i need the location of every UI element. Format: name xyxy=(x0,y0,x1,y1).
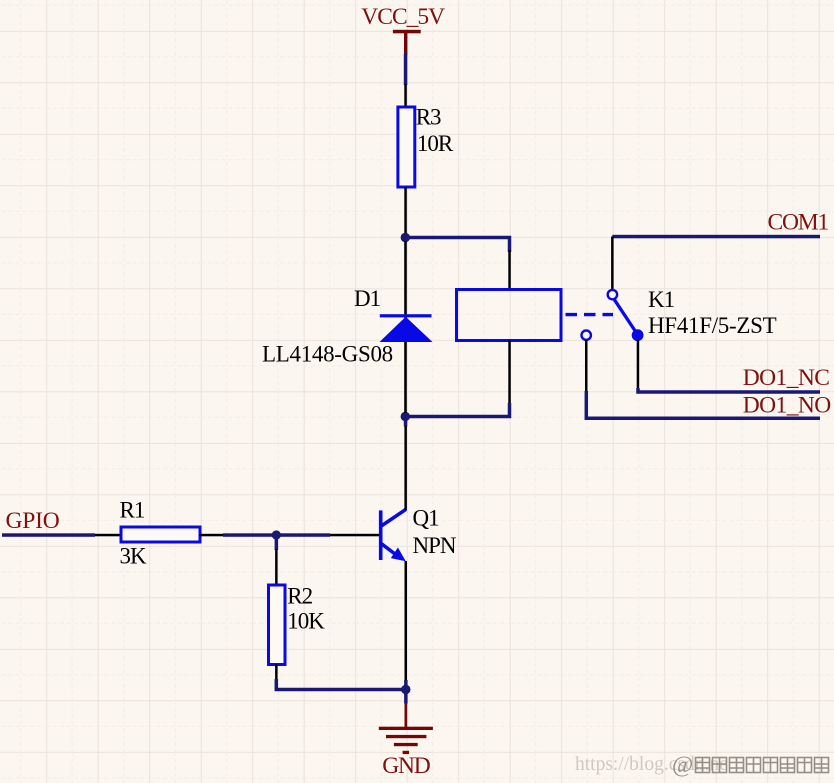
svg-text:@: @ xyxy=(672,752,693,777)
transistor Q1 emitter stroke xyxy=(381,543,400,557)
pin switch NC xyxy=(637,340,640,388)
diode D1 cathode bar xyxy=(380,314,432,317)
switch common terminal circle xyxy=(608,290,617,299)
pin Q1 base xyxy=(330,534,379,537)
wire node to R2 xyxy=(275,535,279,550)
pin R1 left xyxy=(95,534,122,537)
pin switch NO xyxy=(585,340,588,393)
switch NO terminal circle xyxy=(582,331,591,340)
svg-text:10R: 10R xyxy=(417,131,454,156)
wire DO1_NO xyxy=(586,391,820,418)
pin Q1 collector xyxy=(404,426,407,510)
pin coil top xyxy=(508,250,511,290)
node junction base xyxy=(272,530,281,539)
mechanical link dashed xyxy=(566,313,614,316)
pin R2 top xyxy=(275,549,278,585)
resistor R3 xyxy=(398,107,415,187)
svg-text:DO1_NO: DO1_NO xyxy=(743,393,831,419)
svg-text:VCC_5V: VCC_5V xyxy=(361,4,445,30)
wire COM1 xyxy=(612,235,820,239)
wire bottom node to coil xyxy=(405,403,509,417)
wire top node to coil xyxy=(405,238,509,253)
switch NC terminal circle xyxy=(633,331,642,340)
ground symbol xyxy=(379,703,433,754)
svg-text:10K: 10K xyxy=(287,609,325,634)
diode D1 triangle xyxy=(380,317,433,342)
svg-text:GND: GND xyxy=(382,753,431,779)
switch blade xyxy=(614,299,637,333)
transistor Q1 collector stroke xyxy=(381,509,407,526)
pin R1 right xyxy=(200,534,224,537)
node junction emitter/R2/GND xyxy=(401,685,410,694)
diode D1 through line xyxy=(404,241,407,413)
svg-text:D1: D1 xyxy=(354,286,381,311)
svg-text:R2: R2 xyxy=(287,584,312,609)
wire emitter to ground xyxy=(404,680,408,704)
pin switch common xyxy=(611,237,614,291)
svg-text:GPIO: GPIO xyxy=(6,508,60,534)
transistor Q1 emitter arrow xyxy=(391,548,406,562)
pin coil bottom xyxy=(508,341,511,405)
svg-text:R3: R3 xyxy=(416,105,441,130)
svg-text:K1: K1 xyxy=(648,287,675,312)
wire R2 to emitter node xyxy=(276,679,406,690)
svg-text:DO1_NC: DO1_NC xyxy=(743,365,830,391)
wire coil node to collector xyxy=(404,417,408,427)
svg-text:HF41F/5-ZST: HF41F/5-ZST xyxy=(648,313,777,338)
svg-text:3K: 3K xyxy=(120,544,148,569)
svg-text:Q1: Q1 xyxy=(413,506,440,531)
watermark community xyxy=(672,752,829,777)
wire VCC to R3 xyxy=(404,54,408,85)
node junction top (coil/diode/R3) xyxy=(401,233,410,242)
pin R2 bottom xyxy=(275,665,278,681)
wire R1 to base node xyxy=(223,533,330,537)
pin Q1 emitter xyxy=(405,561,408,682)
resistor R2 xyxy=(269,585,286,665)
relay coil K1 box xyxy=(457,290,562,341)
transistor Q1 base bar xyxy=(379,510,383,560)
power flag VCC_5V xyxy=(393,30,421,55)
svg-text:COM1: COM1 xyxy=(768,210,829,236)
pin R3 bottom xyxy=(404,187,407,235)
pin R3 top xyxy=(404,84,407,108)
svg-text:NPN: NPN xyxy=(413,533,457,558)
resistor R1 xyxy=(121,527,200,542)
svg-text:R1: R1 xyxy=(120,498,145,523)
svg-text:LL4148-GS08: LL4148-GS08 xyxy=(262,342,393,367)
wire DO1_NC xyxy=(638,388,820,392)
wire GPIO to R1 xyxy=(2,533,95,537)
node junction bottom xyxy=(401,412,410,421)
